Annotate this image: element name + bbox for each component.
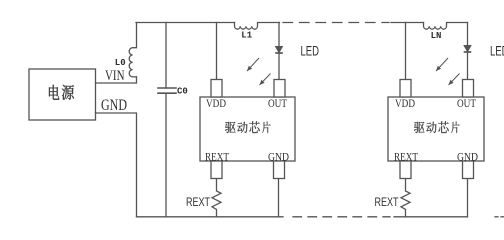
svg-text:C0: C0 xyxy=(177,87,188,97)
svg-text:LED: LED xyxy=(301,44,320,59)
svg-text:VDD: VDD xyxy=(206,96,226,110)
svg-text:GND: GND xyxy=(268,149,289,163)
svg-text:REXT: REXT xyxy=(375,195,399,209)
svg-text:LED: LED xyxy=(490,44,504,59)
svg-text:OUT: OUT xyxy=(457,96,477,110)
svg-text:REXT: REXT xyxy=(186,195,210,209)
svg-text:GND: GND xyxy=(101,97,127,114)
svg-text:REXT: REXT xyxy=(394,149,419,163)
svg-text:VDD: VDD xyxy=(395,96,415,110)
svg-text:REXT: REXT xyxy=(205,149,230,163)
svg-text:OUT: OUT xyxy=(268,96,288,110)
svg-text:LN: LN xyxy=(431,31,442,41)
svg-text:VIN: VIN xyxy=(105,68,125,84)
svg-text:L1: L1 xyxy=(241,31,252,41)
svg-text:L0: L0 xyxy=(115,58,126,68)
svg-text:GND: GND xyxy=(457,149,478,163)
